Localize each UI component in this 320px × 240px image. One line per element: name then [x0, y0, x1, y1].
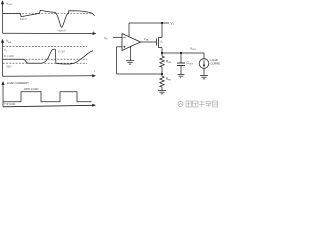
node output at capacitor — [180, 52, 182, 54]
wire feedback vertical — [116, 47, 118, 74]
plot2 waveform — [3, 49, 93, 64]
plot3 y-axis arrowhead — [1, 81, 4, 85]
svg-text:t: t — [91, 99, 92, 103]
wire inverting input VREF — [113, 36, 122, 38]
plot2 dashed line FL LOAD — [3, 58, 87, 60]
ground op-amp — [126, 61, 134, 64]
wire op-amp supply from rail — [128, 23, 130, 37]
resistor RF2 — [160, 74, 164, 90]
wire op-amp ground pin — [130, 46, 132, 60]
plot2 y-axis arrowhead — [1, 39, 4, 43]
svg-text:-80mV: -80mV — [58, 28, 66, 32]
plot1 x-axis arrowhead — [93, 32, 97, 35]
node supply rail junction — [161, 22, 163, 24]
wire drain from rail — [161, 23, 163, 38]
plot1 y-axis — [2, 3, 4, 34]
wire non-inverting input — [117, 46, 123, 48]
svg-text:FL LOAD: FL LOAD — [4, 55, 14, 58]
plot3 y-axis — [2, 84, 4, 107]
svg-text:GEN: GEN — [6, 66, 11, 69]
watermark logo — [178, 101, 183, 106]
node output at divider — [161, 52, 163, 54]
plot1 y-axis arrowhead — [1, 0, 4, 4]
svg-text:LOAD CURRENT: LOAD CURRENT — [7, 81, 29, 85]
svg-text:TYP LOAD: TYP LOAD — [4, 103, 16, 106]
plot2 dashed line V2 — [3, 45, 87, 47]
watermark text — [186, 101, 218, 108]
plot2 axis label — [6, 39, 12, 44]
capacitor COUT — [177, 63, 185, 66]
plot1 axis label VOUT — [6, 1, 13, 6]
ground divider — [158, 91, 166, 94]
plot3 x-axis arrowhead — [92, 104, 96, 107]
plot1 Vout waveform — [3, 10, 95, 27]
svg-text:LOAD: LOAD — [211, 58, 218, 62]
wire op-amp output to gate — [141, 41, 157, 43]
plot1 x-axis — [3, 32, 94, 34]
resistor RF1 — [160, 53, 164, 74]
current source arrow — [203, 60, 206, 67]
wire load to ground — [203, 68, 205, 75]
plot1 dashed reference line — [3, 13, 93, 15]
svg-text:CURRENT: CURRENT — [211, 61, 221, 65]
ground capacitor — [178, 75, 185, 78]
wire top supply rail V1 — [129, 22, 169, 24]
plot2 x-axis — [3, 75, 93, 78]
op-amp non-inverting pin mark — [123, 46, 125, 48]
current source label LOAD CURRENT — [211, 58, 224, 66]
wire capacitor bottom lead — [180, 66, 182, 75]
wire output rail to load — [203, 53, 205, 59]
svg-text:100% LOAD: 100% LOAD — [24, 87, 39, 91]
wire feedback horizontal — [117, 73, 163, 75]
plot2 x-axis arrowhead — [92, 74, 96, 77]
ground load — [200, 76, 208, 79]
wire source to output node — [161, 48, 163, 54]
svg-text:t: t — [94, 69, 95, 73]
node feedback junction — [161, 73, 163, 75]
wire output rail — [162, 52, 204, 54]
plot2 dashed line GEN — [3, 62, 87, 64]
svg-text:V2-5V: V2-5V — [58, 50, 65, 54]
wire capacitor top lead — [180, 53, 182, 63]
current source load — [199, 59, 209, 69]
transistor M1 — [157, 38, 163, 48]
plot3 x-axis — [3, 105, 93, 107]
plot2 y-axis — [2, 41, 4, 76]
op-amp U1 — [122, 34, 141, 51]
op-amp inverting pin mark — [123, 36, 125, 38]
svg-text:40mV: 40mV — [20, 17, 27, 21]
plot3 load current square wave — [3, 92, 92, 102]
